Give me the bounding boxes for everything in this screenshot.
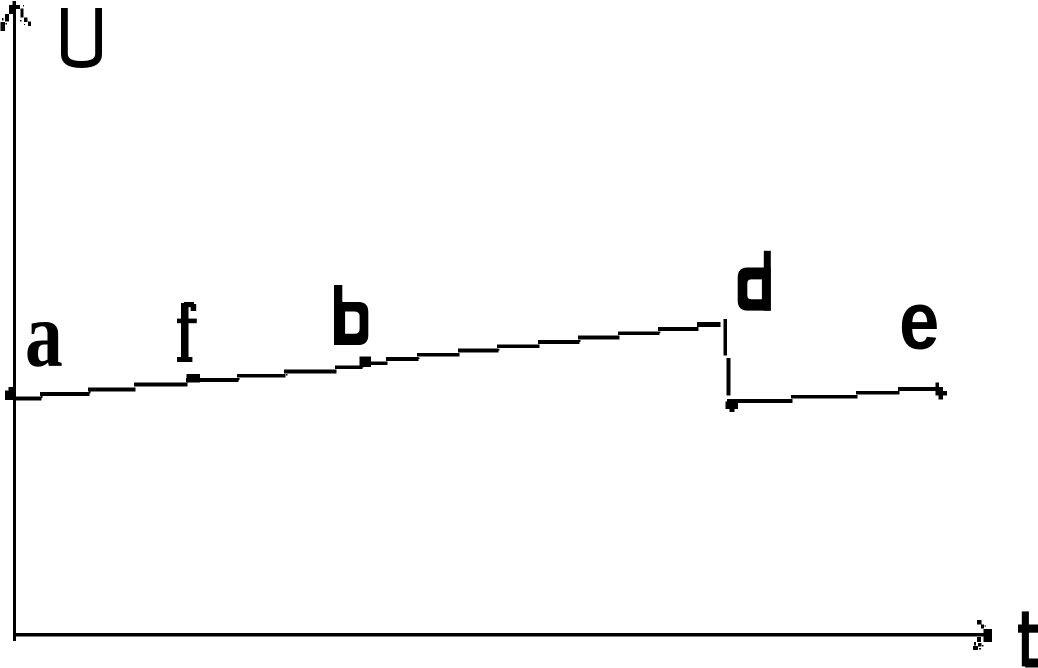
y-axis line (U axis) xyxy=(13,2,16,641)
x-axis arrowhead with scan noise xyxy=(973,620,992,650)
point d tick at drop bottom xyxy=(726,401,738,412)
curve segment d to e (lower staircase line) xyxy=(727,387,938,403)
voltage drop vertical line lower part at d xyxy=(726,358,730,396)
point label e xyxy=(899,280,939,362)
y-axis arrowhead with scan noise xyxy=(1,1,31,31)
curve segment a to d (rising staircase line) xyxy=(13,322,721,400)
point label d xyxy=(738,251,771,311)
point label f xyxy=(177,302,197,362)
arrowhead at point e (end of curve) xyxy=(936,383,947,400)
point a tick at curve start xyxy=(5,387,13,400)
voltage drop vertical line upper part at d xyxy=(724,319,728,355)
x-axis line (t axis) xyxy=(13,633,992,637)
axis label t xyxy=(1018,611,1038,667)
axis label U xyxy=(61,8,102,68)
point label b xyxy=(334,285,368,345)
point label a xyxy=(25,288,63,382)
point f tick on curve xyxy=(187,374,201,383)
point b tick on curve xyxy=(360,357,371,368)
